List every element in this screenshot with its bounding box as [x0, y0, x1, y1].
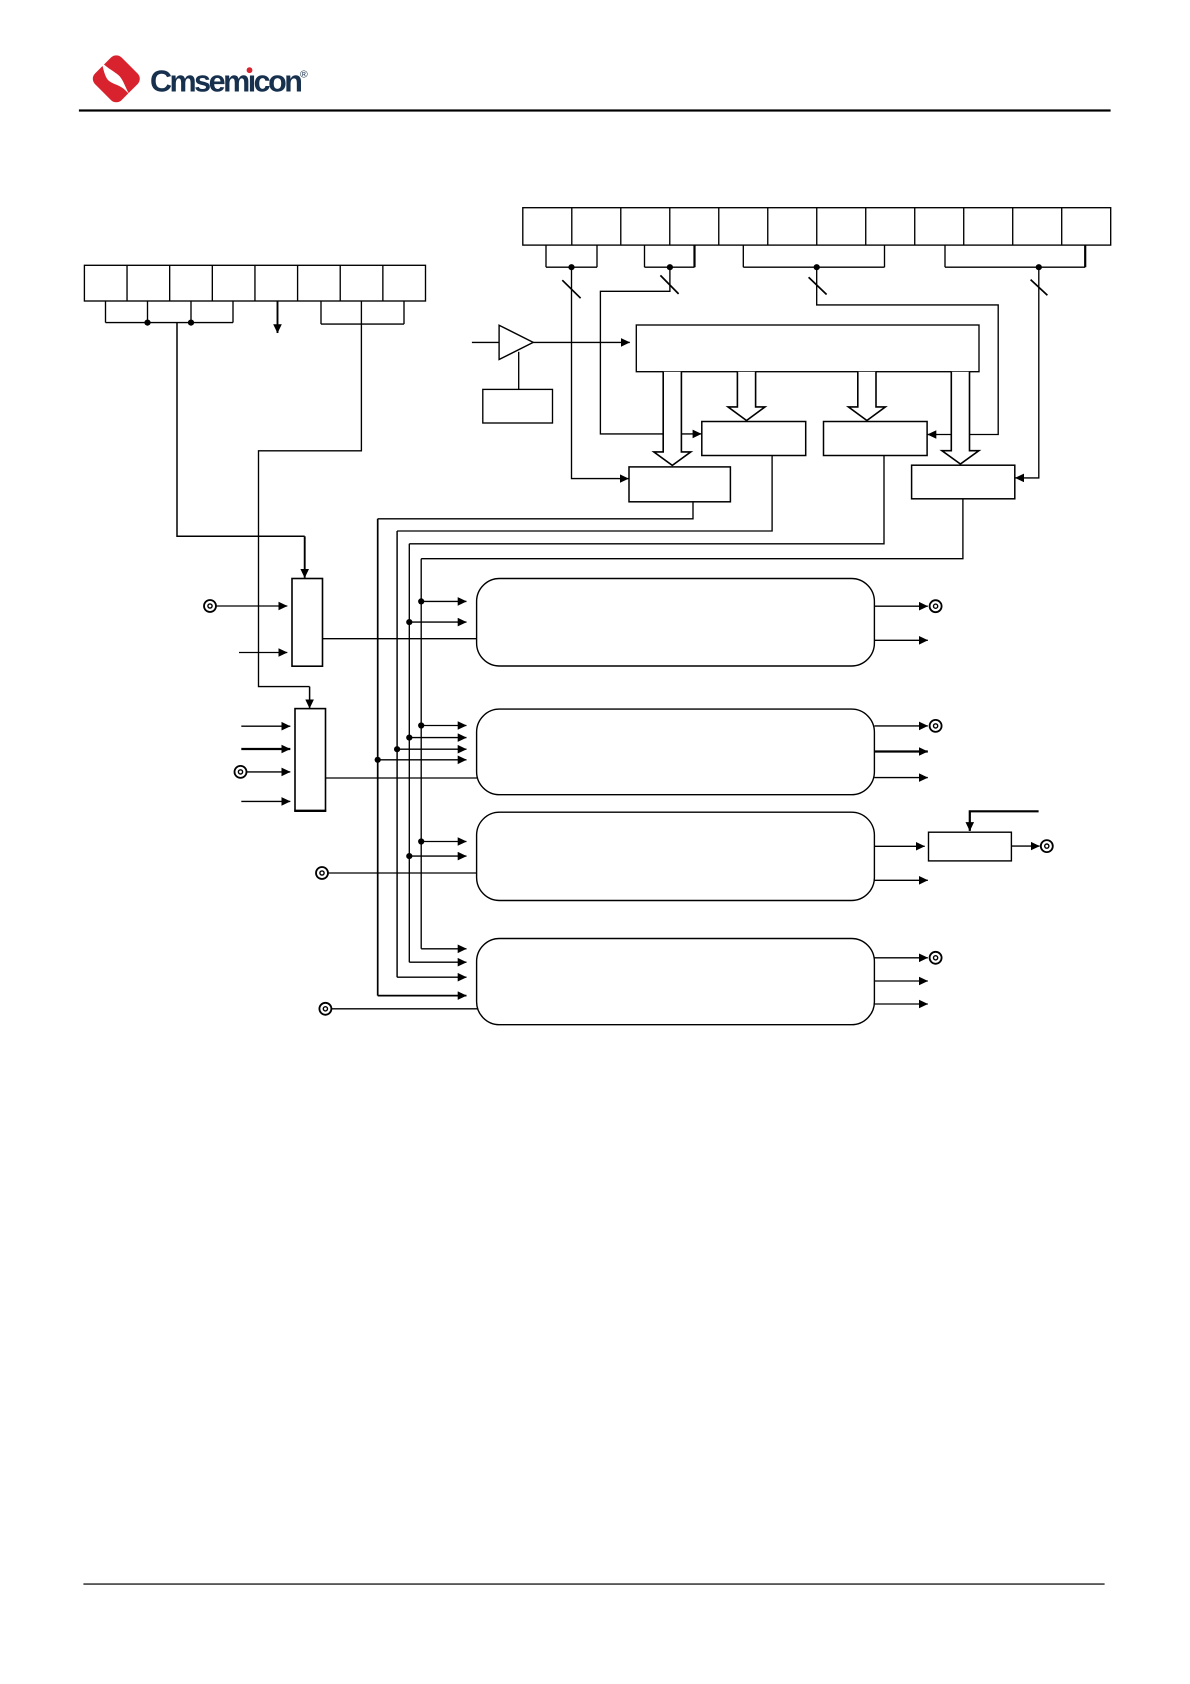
junction bus D / block B in1 — [418, 722, 424, 728]
mux M1 — [292, 579, 323, 667]
block A (rounded) — [477, 579, 875, 667]
mux M2 bottom edge (bold) — [294, 810, 326, 812]
footer rule — [83, 1583, 1104, 1584]
register row R2 (right, 12 bit cells) — [523, 208, 1111, 245]
R1 bracket b1 left leg — [105, 301, 107, 323]
R1 bracket b2 bar — [321, 323, 404, 325]
wire block D out2 — [874, 980, 927, 982]
wire bus C to block B in2 — [409, 737, 466, 739]
wire block B out2 (bold) — [874, 750, 927, 752]
wire bus B elbow to block D in3 — [397, 976, 466, 978]
R1 bracket b1 leg 2 — [147, 301, 149, 323]
R1 cell divider 6 — [339, 265, 341, 301]
wire PPS box output — [1011, 845, 1039, 847]
clock box (lower-left) — [629, 467, 730, 502]
box L2 (lower-right) — [912, 465, 1015, 499]
R1 bracket b2 right leg — [403, 301, 405, 324]
wire block A out1 — [874, 605, 927, 607]
wire buffer to oscillator box — [518, 352, 520, 390]
wire arrow into box P2 right — [928, 434, 938, 436]
wire block C out2 — [874, 879, 927, 881]
port P2 (input pad) — [235, 766, 247, 778]
hollow arrow to box P2 — [848, 372, 885, 421]
wire bus A to block B in4 — [378, 759, 467, 761]
R1 bracket b1 leg 3 — [190, 301, 192, 323]
svg-text:Cmsemıcon: Cmsemıcon — [150, 64, 301, 98]
junction bus A / block B in4 — [375, 757, 381, 763]
R2 cell divider 11 — [1061, 208, 1063, 245]
PPS stub wire (bold elbow) — [970, 811, 1039, 822]
wire bus A elbow to block D in4 — [378, 995, 467, 997]
clock input stub wire — [472, 341, 499, 343]
mux M2 input stub 2 (bold) — [241, 748, 290, 750]
wire mux M1 output to block A — [323, 638, 478, 640]
wire block A out2 — [874, 639, 927, 641]
bus A vertical — [377, 519, 379, 996]
wire arrow into box P1 left — [691, 433, 701, 435]
port PB (output pad) — [930, 720, 942, 732]
wire B2 staircase to box P1 — [600, 267, 691, 434]
junction bus D / block A in1 — [418, 598, 424, 604]
logo S swirl (white) — [102, 63, 130, 95]
wire bus D to block B in1 — [421, 725, 466, 727]
R1 bracket b1 bar — [106, 322, 234, 324]
wire block B out3 — [874, 777, 927, 779]
R2 bracket B3 right leg — [884, 245, 886, 267]
wire port P3 to block C — [328, 872, 477, 874]
R1 cell divider 1 — [126, 265, 128, 301]
wire arrow into box L2 right — [1015, 477, 1025, 479]
bus-width slash S3 — [809, 277, 827, 294]
wire bus C elbow to block D in2 — [409, 961, 466, 963]
junction bus D / block C in1 — [418, 838, 424, 844]
R2 cell divider 5 — [767, 208, 769, 245]
wire port P2 to mux M2 — [246, 771, 290, 773]
wire B1 to clock box (down then right) — [572, 267, 619, 478]
bus-width slash S2 — [660, 275, 678, 294]
R2 cell divider 4 — [718, 208, 720, 245]
bus-width slash S4 — [1031, 280, 1048, 296]
mux M1 input stub 2 — [239, 652, 287, 654]
port P5 (output pad) — [1041, 840, 1053, 852]
R1 cell5 down arrow — [277, 301, 279, 333]
block D (rounded) — [477, 939, 875, 1025]
junction on B2 bar — [667, 264, 673, 270]
block C (rounded) — [477, 812, 875, 900]
wire bus C to block A in2 — [409, 621, 466, 623]
R1 cell divider 4 — [254, 265, 256, 301]
junction bus C / block C in2 — [406, 853, 412, 859]
wire arrow into clock box — [619, 478, 629, 480]
R1 cell divider 7 — [382, 265, 384, 301]
R2 bracket B4 bar — [945, 266, 1085, 268]
wire box P2 output to bus C — [409, 456, 884, 544]
wire B3 staircase to box P2 — [817, 267, 999, 434]
wire block D out3 — [874, 1003, 927, 1005]
mux M2 input stub 4 — [241, 800, 290, 802]
R2 bracket B3 bar — [743, 266, 884, 268]
junction bus B / block B in3 — [394, 746, 400, 752]
port PA (output pad) — [930, 600, 942, 612]
junction on B1 bar — [568, 264, 574, 270]
R2 bracket B2 left leg — [644, 245, 646, 267]
mux M2 — [295, 709, 326, 811]
bus B vertical — [396, 531, 398, 977]
header rule — [79, 109, 1111, 111]
wire block D out1 — [874, 957, 927, 959]
bus C vertical — [408, 544, 410, 962]
bus-width slash S1 — [562, 280, 580, 298]
R2 cell divider 6 — [816, 208, 818, 245]
R2 bracket B3 left leg — [742, 245, 744, 267]
svg-text:®: ® — [300, 69, 308, 81]
junction on b1 bar (left) — [144, 320, 150, 326]
R2 bracket B1 right leg — [596, 245, 598, 267]
port P4 (input pad) — [319, 1003, 331, 1015]
R2 bracket B4 left leg — [944, 245, 946, 267]
R2 bracket B2 bar — [645, 266, 695, 268]
hollow arrow to clock box — [654, 372, 691, 466]
R2 cell divider 10 — [1012, 208, 1014, 245]
wire box P1 output to bus B — [397, 456, 772, 532]
wire bus D to block C in1 — [421, 841, 466, 843]
R2 cell divider 8 — [914, 208, 916, 245]
R1 bracket b2 mid leg — [360, 301, 362, 324]
junction bus C / block A in2 — [406, 619, 412, 625]
R1 cell divider 3 — [211, 265, 213, 301]
hollow arrow to box L2 — [942, 372, 979, 464]
junction on B4 bar — [1036, 264, 1042, 270]
wire block B out1 — [874, 725, 927, 727]
wire B4 to box L2 (down then left) — [1025, 267, 1039, 478]
logo mark (red diamond) — [90, 52, 143, 105]
comparator big box — [636, 325, 979, 372]
R1 cell divider 5 — [297, 265, 299, 301]
wire buffer output to big box — [533, 341, 630, 343]
box P1 (mid-left) — [702, 422, 806, 456]
arrow into PPS box top — [969, 823, 971, 831]
box P2 (mid-right) — [824, 422, 928, 456]
oscillator box — [483, 389, 553, 423]
wire bus D elbow to block D in1 — [421, 948, 466, 950]
hollow arrow to box P1 — [728, 372, 765, 421]
R2 bracket B2 right leg (bold) — [693, 245, 695, 267]
wire clock box output to bus A — [378, 502, 693, 519]
R2 cell divider 1 — [571, 208, 573, 245]
R2 bracket B1 left leg — [545, 245, 547, 267]
wire block C out1 to PPS box — [874, 845, 924, 847]
wire bus C to block C in2 — [409, 855, 466, 857]
R2 cell divider 7 — [865, 208, 867, 245]
wire box L2 output to bus D — [421, 499, 963, 559]
wire port P4 to block D — [331, 1008, 478, 1010]
wire mux M2 output to block B — [326, 777, 478, 779]
block B (rounded) — [477, 709, 875, 795]
junction on B3 bar — [814, 264, 820, 270]
wire port P1 to mux M1 — [216, 605, 288, 607]
R1 bracket b1 right leg — [232, 301, 234, 323]
wire arrow into mux M2 top — [309, 687, 311, 709]
register row R1 (left, 8 bit cells) — [84, 265, 425, 301]
port P3 (input pad) — [316, 867, 328, 879]
wire bus D to block A in1 — [421, 600, 466, 602]
R2 bracket B4 right leg (bold) — [1084, 245, 1086, 267]
buffer U1 (triangle) — [499, 325, 533, 359]
port PD (output pad) — [930, 952, 942, 964]
wire bus B to block B in3 — [397, 748, 466, 750]
port P1 (input pad) — [204, 600, 216, 612]
junction bus C / block B in2 — [406, 735, 412, 741]
mux M2 input stub 1 — [241, 725, 290, 727]
R2 cell divider 3 — [669, 208, 671, 245]
R2 bracket B1 bar — [546, 266, 597, 268]
R2 cell divider 9 — [963, 208, 965, 245]
bus D vertical — [420, 559, 422, 949]
junction on b1 bar (right) — [188, 320, 194, 326]
wire b1 to mux M1 (vertical+jog) — [177, 323, 305, 537]
wire arrow into mux M1 top — [304, 536, 306, 578]
R2 cell divider 2 — [620, 208, 622, 245]
logo red i-dot — [247, 67, 253, 73]
R1 bracket b2 left leg — [320, 301, 322, 324]
PPS box — [929, 832, 1012, 861]
wire b2 to mux M2 (staircase) — [259, 324, 362, 686]
R1 cell divider 2 — [169, 265, 171, 301]
